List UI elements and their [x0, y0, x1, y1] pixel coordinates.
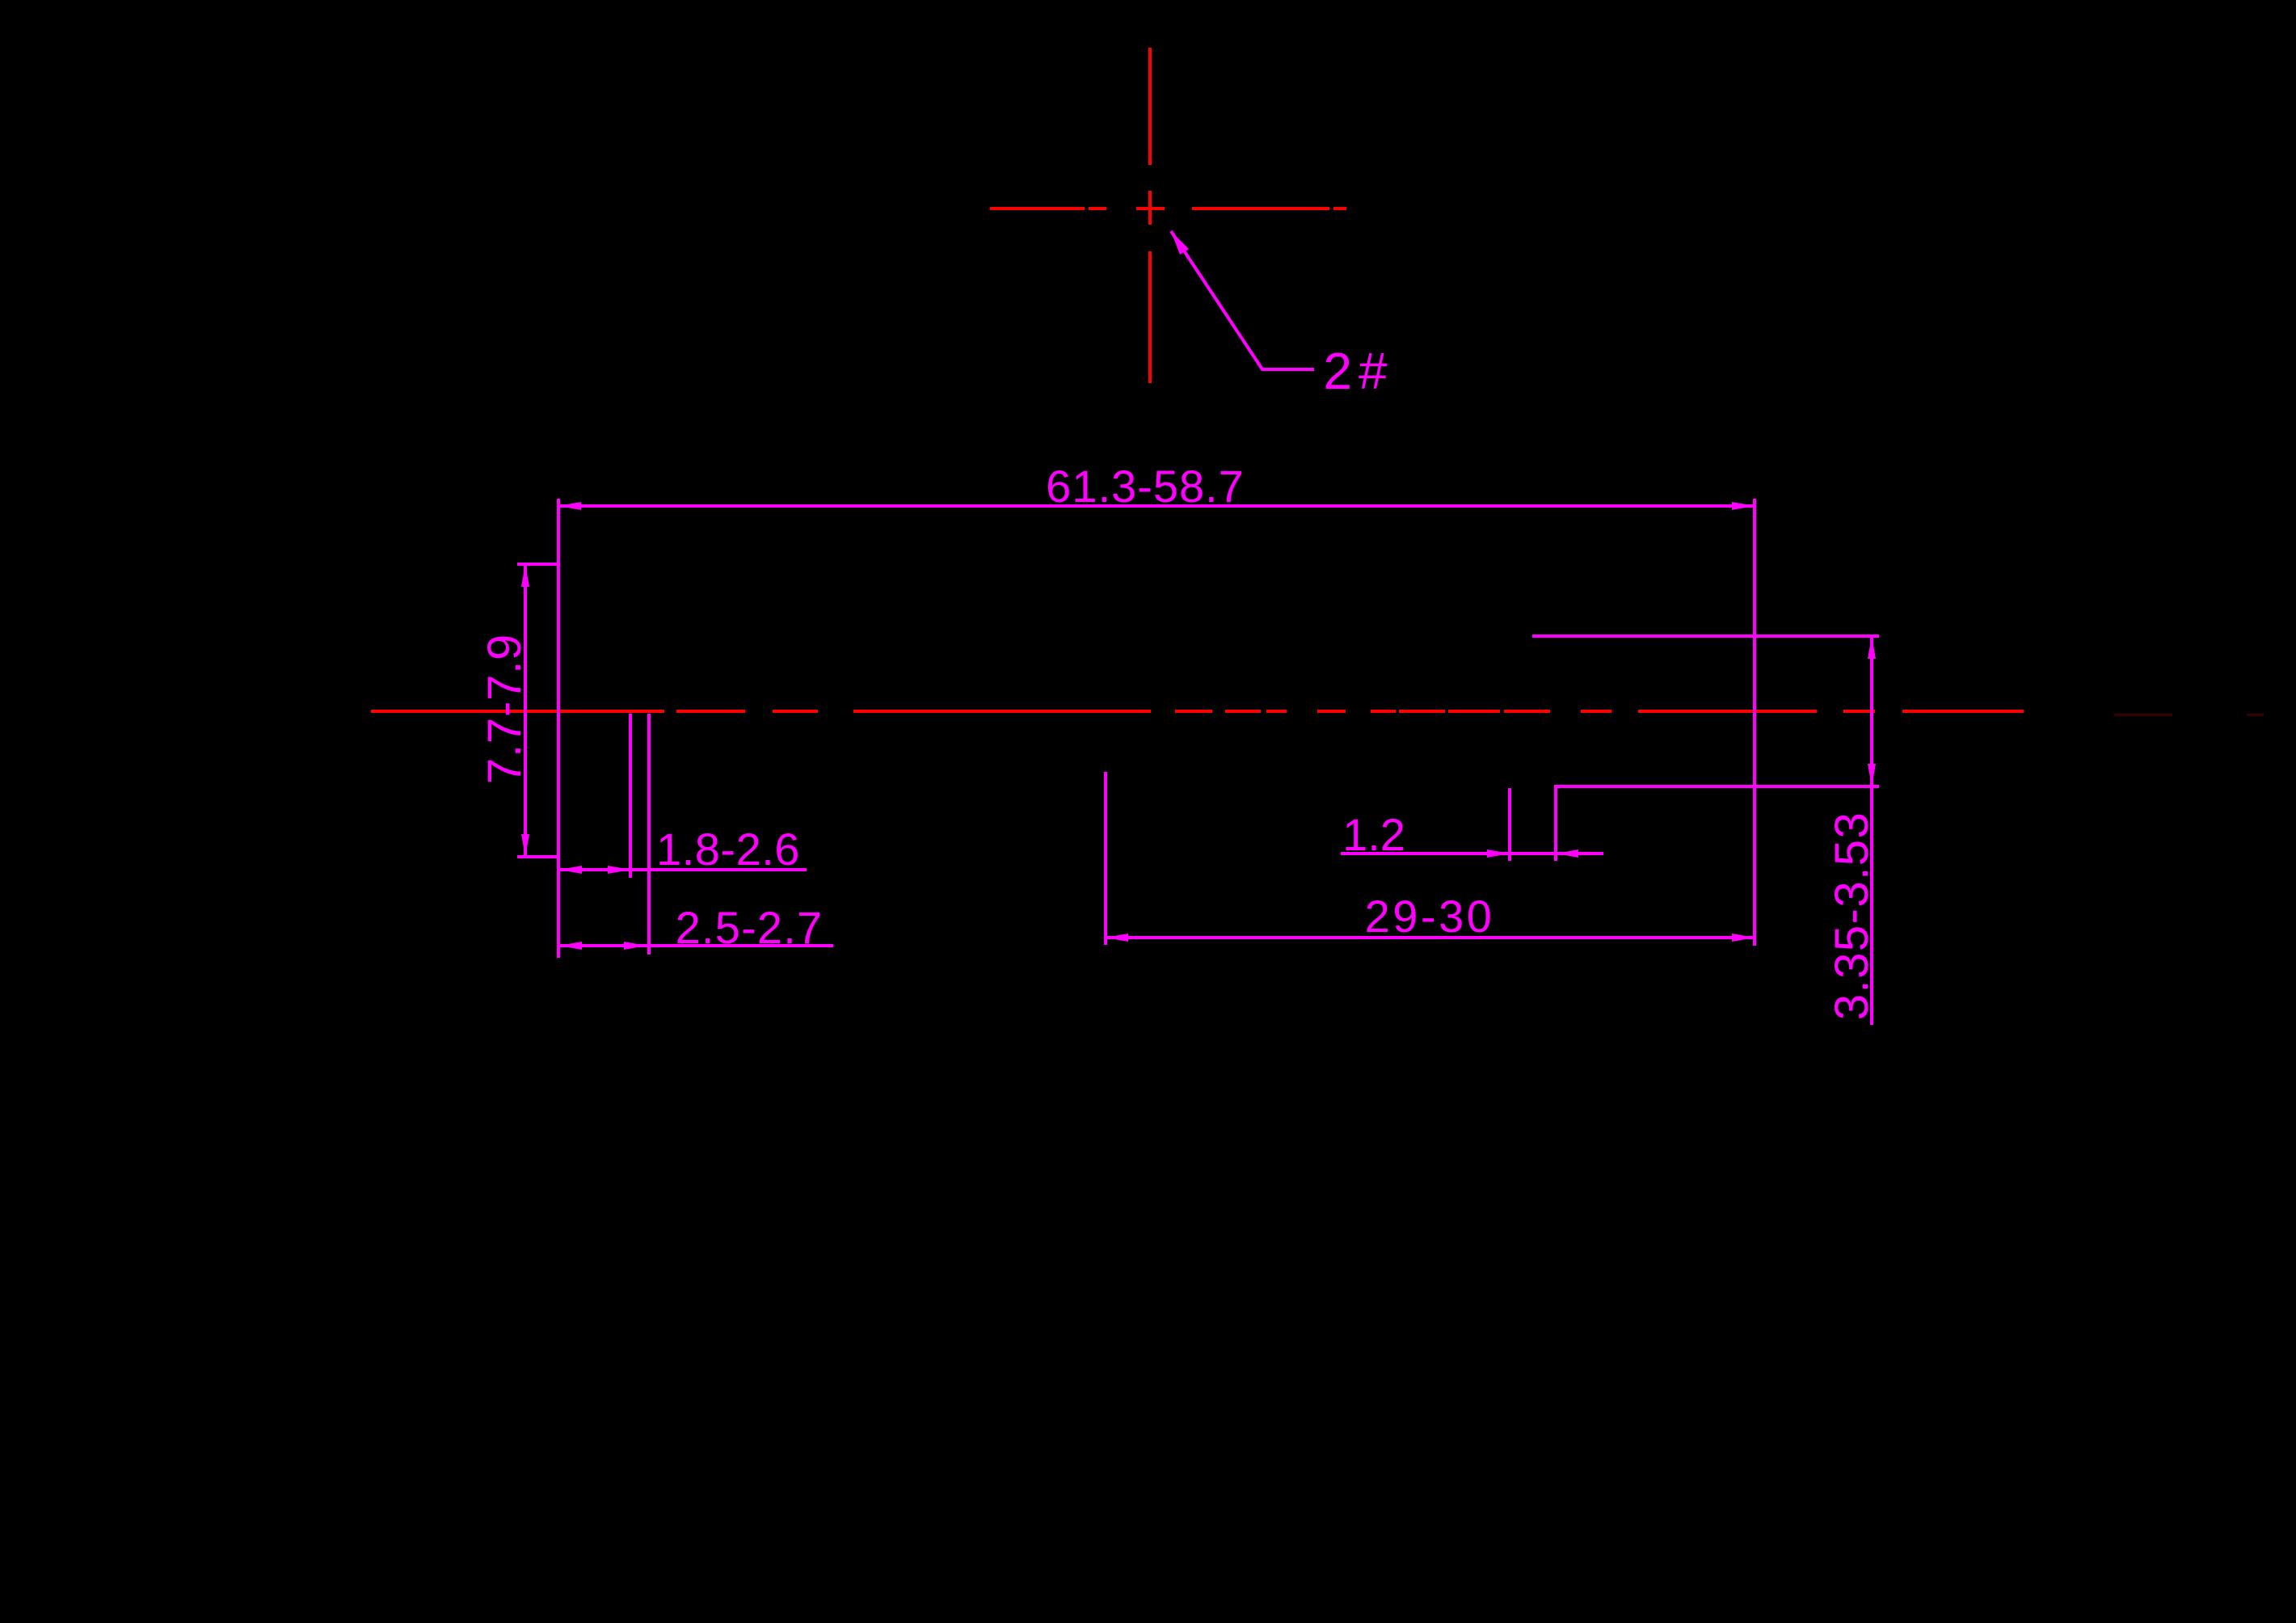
leader arrowhead 2#: [1171, 231, 1189, 255]
svg-text:1.2: 1.2: [1342, 809, 1405, 860]
dimension 3.35-3.53 dimension line: [1870, 636, 1873, 1025]
dimension 7.7-7.9 dimension line: [524, 564, 527, 857]
leader arrow 2#: [1171, 231, 1314, 369]
centerline crosshair vertical (red): [1148, 48, 1152, 383]
svg-text:2#: 2#: [1323, 342, 1393, 400]
dimension 29-30 right arrowhead: [1732, 934, 1755, 942]
dimension 7.7-7.9 top extension tick: [517, 563, 558, 566]
dimension 3.35-3.53 bottom arrowhead: [1868, 764, 1876, 786]
dimension 61.3-58.7 right arrowhead: [1732, 502, 1755, 510]
svg-text:7.7-7.9: 7.7-7.9: [478, 634, 531, 784]
dimension 1.2 right extension line: [1554, 786, 1557, 861]
dimension 2.5-2.7 left arrowhead: [559, 942, 582, 950]
svg-text:1.8-2.6: 1.8-2.6: [656, 824, 800, 875]
dimension 2.5-2.7 dimension line: [558, 944, 833, 947]
dimension 1.2 left-pointing arrowhead: [1556, 849, 1578, 858]
dimension 1.2 left extension line: [1508, 788, 1511, 861]
svg-text:2.5-2.7: 2.5-2.7: [676, 902, 824, 953]
svg-text:61.3-58.7: 61.3-58.7: [1046, 461, 1245, 512]
dimension 3.35-3.53 top extension line: [1532, 634, 1879, 638]
dimension 2.5-2.7 right arrowhead: [624, 942, 647, 950]
dimension 1.8-2.6 dimension line: [558, 868, 807, 871]
dimension 61.3-58.7 left arrowhead: [558, 502, 581, 510]
dimension 1.8-2.6 left arrowhead: [559, 866, 582, 874]
svg-text:3.35-3.53: 3.35-3.53: [1826, 811, 1878, 1021]
dimension 1.8-2.6 / 2.5-2.7 right thin extension line: [647, 714, 651, 955]
dimension 3.35-3.53 top arrowhead: [1868, 636, 1876, 659]
dimension 1.2 right-pointing arrowhead: [1487, 849, 1510, 858]
svg-text:29-30: 29-30: [1365, 891, 1495, 942]
dimension 61.3-58.7 / 29-30 right extension line: [1753, 499, 1756, 946]
dimension 1.8-2.6 left thin extension line: [629, 714, 632, 878]
dimension 7.7-7.9 bottom extension tick: [517, 855, 558, 858]
dimension 3.35-3.53 bottom extension line: [1554, 785, 1879, 788]
centerline crosshair horizontal (red): [990, 207, 1346, 210]
dimension 61.3-58.7 dimension line: [558, 504, 1755, 508]
dimension 61.3-58.7 left extension line: [557, 499, 560, 958]
dimension 7.7-7.9 top arrowhead: [521, 564, 529, 587]
dimension 29-30 left arrowhead: [1106, 934, 1128, 942]
dimension 1.8-2.6 right arrowhead: [608, 866, 630, 874]
dimension 29-30 left extension line: [1104, 772, 1107, 945]
main red dash-dot centerline y=880: [371, 710, 2024, 713]
dimension 29-30 dimension line: [1106, 936, 1755, 939]
faint centerline residue right: [2114, 714, 2172, 716]
dimension 1.2 dimension line: [1341, 852, 1603, 855]
dimension 7.7-7.9 bottom arrowhead: [521, 834, 529, 857]
